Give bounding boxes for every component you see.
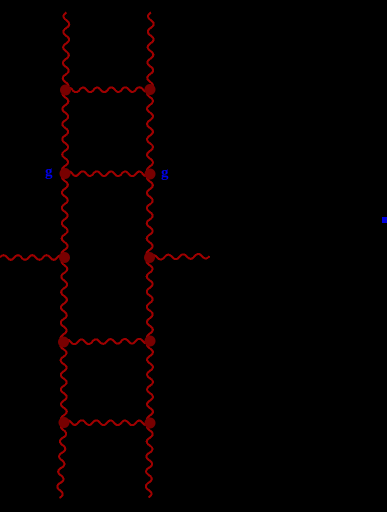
wire right external leg: [150, 254, 210, 260]
wire right rail seg 3-4: [147, 258, 153, 342]
wire rung 2: [65, 171, 150, 176]
wire left rail seg 4-5: [61, 342, 67, 423]
node L5: [59, 417, 70, 428]
label g right: [161, 166, 169, 181]
wire rung 1: [66, 87, 151, 92]
wire right rail bottom stub: [146, 423, 153, 498]
wire right rail seg 2-3: [147, 174, 153, 258]
node R5: [145, 418, 156, 429]
wire left rail seg 3-4: [61, 258, 68, 343]
node R2: [145, 169, 156, 180]
node R3: [144, 252, 155, 263]
wire rung 3: [64, 339, 151, 344]
wire right rail seg 4-5: [147, 341, 153, 423]
node L1: [60, 85, 71, 96]
wire right rail top stub: [147, 13, 153, 90]
wire left external leg: [0, 255, 65, 260]
node R1: [145, 84, 156, 95]
label fragment right edge: [382, 217, 387, 223]
wire right rail seg 1-2: [147, 90, 153, 175]
wire left rail top stub: [63, 13, 69, 91]
label g left: [45, 165, 53, 180]
node R4: [145, 336, 156, 347]
node L2: [60, 168, 71, 179]
wire left rail seg 1-2: [62, 90, 68, 174]
node L3: [59, 252, 70, 263]
wire rung 4: [64, 420, 150, 425]
wire left rail seg 2-3: [62, 174, 68, 258]
node L4: [58, 337, 69, 348]
wire left rail bottom stub: [57, 423, 66, 499]
